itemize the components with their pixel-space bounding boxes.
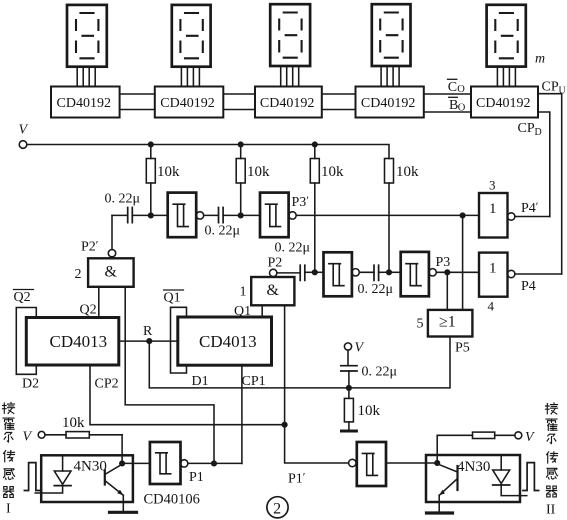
svg-text:Q1: Q1 xyxy=(164,291,181,306)
label P1 xyxy=(189,470,204,485)
svg-text:&: & xyxy=(267,282,280,299)
svg-text:10k: 10k xyxy=(358,403,381,419)
wire C1 to P2' bubble xyxy=(111,215,113,249)
chinese label column II: huo xyxy=(546,419,557,430)
svg-text:10k: 10k xyxy=(396,164,419,180)
svg-text:1: 1 xyxy=(489,261,497,277)
svg-text:2: 2 xyxy=(75,267,82,282)
label 0.22u C1 xyxy=(105,192,141,207)
wire P3' branch to OR input xyxy=(462,215,464,310)
label roman I xyxy=(6,502,11,517)
svg-text:m: m xyxy=(535,52,545,67)
wire bus U2-U3 xyxy=(223,94,255,110)
label Co with overbar xyxy=(448,79,466,95)
node R xyxy=(147,339,152,344)
node OC1 collector xyxy=(120,461,125,466)
wire P2 to C3 xyxy=(277,272,300,274)
chinese label column I: chuan xyxy=(4,451,15,462)
svg-text:CP1: CP1 xyxy=(242,374,266,389)
wire DS2 pins to U2 xyxy=(181,67,199,87)
counter U2 CD40192 xyxy=(155,87,224,118)
capacitor C5 0.22u xyxy=(341,350,397,388)
svg-text:CD40192: CD40192 xyxy=(361,96,415,111)
buffer gate 3 xyxy=(479,193,515,238)
wire CPU from U5 to P4 xyxy=(538,94,562,274)
svg-text:CP: CP xyxy=(542,80,559,95)
schmitt inverter N1 xyxy=(168,193,204,238)
svg-text:P3: P3 xyxy=(436,255,451,270)
wire OR output P5 to RC node xyxy=(349,337,450,388)
svg-text:CD4013: CD4013 xyxy=(50,332,108,351)
svg-text:R: R xyxy=(143,324,153,339)
optocoupler OC2 4N30 xyxy=(426,455,520,502)
terminal V mid xyxy=(344,341,364,356)
svg-text:0. 22μ: 0. 22μ xyxy=(362,365,398,380)
node R3-C3 xyxy=(313,270,318,275)
wire N3 out to C4 xyxy=(359,271,374,273)
chinese label column I: qi xyxy=(3,487,13,498)
label P2' xyxy=(81,238,99,255)
resistor R5 10k xyxy=(344,388,380,430)
wire C3 node to N3 xyxy=(315,271,324,273)
svg-text:D2: D2 xyxy=(22,377,39,392)
svg-text:CP2: CP2 xyxy=(95,377,119,392)
wire bus U1-U2 xyxy=(120,94,155,110)
wire OC1 emitter to ground xyxy=(122,495,124,511)
label 2 xyxy=(75,267,82,282)
chinese label column II: gan xyxy=(547,468,558,479)
ground for R5 xyxy=(342,430,357,433)
resistor R1 10k xyxy=(146,145,180,216)
counter U3 CD40192 xyxy=(255,87,322,118)
svg-text:5: 5 xyxy=(417,317,424,332)
chinese label column II: er xyxy=(547,434,556,443)
label Q2 bar xyxy=(14,290,34,306)
wire DS4 pins to U4 xyxy=(381,66,399,86)
wire N1 out to C2 xyxy=(204,214,219,216)
node CP2-P1' xyxy=(282,422,287,427)
counter U4 CD40192 xyxy=(356,87,424,118)
wire NAND1 right input from P1' xyxy=(285,305,349,463)
label Q1 bar xyxy=(164,290,184,306)
schmitt inverter N5 CD40106 xyxy=(150,442,188,484)
svg-text:II: II xyxy=(546,503,556,518)
wire DS3 pins to U3 xyxy=(281,66,299,86)
wire OC2 collector to R7 xyxy=(437,435,472,463)
figure number 2 xyxy=(267,497,288,518)
label Q1 xyxy=(234,304,251,319)
wire C2 node to N2 xyxy=(241,214,260,216)
terminal V top left xyxy=(19,123,29,149)
wire OC2 emitter to ground xyxy=(438,495,440,511)
wire CP1 to P1 xyxy=(241,365,243,463)
svg-text:3: 3 xyxy=(489,178,496,193)
node R1-C1 xyxy=(149,213,154,218)
optocoupler OC1 4N30 xyxy=(41,455,133,502)
label P4 xyxy=(521,279,536,294)
capacitor C2 0.22u xyxy=(205,208,241,239)
label P4' xyxy=(521,199,539,216)
resistor R2 10k xyxy=(236,145,270,216)
resistor R6 10k xyxy=(45,432,122,438)
svg-text:1: 1 xyxy=(240,285,247,300)
wire P1 xyxy=(188,462,242,464)
svg-text:10k: 10k xyxy=(157,164,180,180)
node OC2 collector xyxy=(435,461,440,466)
7-segment display DS2 xyxy=(172,5,211,67)
label P3 xyxy=(436,255,451,270)
capacitor C3 0.22u xyxy=(300,265,315,280)
OR gate 5 xyxy=(428,310,473,337)
7-segment display DS3 xyxy=(270,4,310,66)
svg-text:P1′: P1′ xyxy=(288,470,306,487)
wire DS1 pins to U1 xyxy=(77,67,95,87)
NAND gate 2 xyxy=(88,258,134,287)
svg-text:0. 22μ: 0. 22μ xyxy=(105,192,141,207)
svg-text:CD40106: CD40106 xyxy=(144,492,200,508)
svg-text:I: I xyxy=(6,502,11,517)
label 1 xyxy=(240,285,247,300)
schmitt inverter N6 xyxy=(349,442,386,486)
chinese label column II: qi xyxy=(546,486,556,497)
phototransistor of OC2 xyxy=(437,464,457,496)
label m xyxy=(535,52,545,67)
svg-text:O: O xyxy=(457,84,465,95)
label P1' xyxy=(288,470,306,487)
flip-flop U7 CD4013 xyxy=(178,317,272,365)
LED of OC2 xyxy=(493,456,527,495)
wire CPD from U5 to P4' xyxy=(538,112,550,217)
label 0.22u C3 xyxy=(275,241,311,256)
svg-text:P5: P5 xyxy=(455,341,470,356)
svg-text:4N30: 4N30 xyxy=(74,459,107,475)
svg-text:C: C xyxy=(448,80,457,95)
wire bus U3-U4 xyxy=(322,94,356,110)
svg-text:CD40192: CD40192 xyxy=(476,96,530,111)
NAND gate 1 output bubble xyxy=(270,269,277,276)
schmitt inverter N2 xyxy=(260,193,296,238)
svg-text:P3′: P3′ xyxy=(292,193,310,210)
svg-text:V: V xyxy=(525,430,535,445)
wire gate3 out to CPD xyxy=(515,216,550,218)
svg-text:4N30: 4N30 xyxy=(457,459,490,475)
wire R6 to opto1 collector xyxy=(121,435,123,464)
svg-text:V: V xyxy=(23,430,33,445)
svg-text:4: 4 xyxy=(488,299,495,314)
wire Q1 to NAND1 xyxy=(261,305,263,317)
label P5 xyxy=(455,341,470,356)
svg-text:0. 22μ: 0. 22μ xyxy=(358,282,394,297)
svg-text:O: O xyxy=(458,103,466,114)
flip-flop U6 CD4013 xyxy=(26,318,119,366)
svg-text:V: V xyxy=(19,123,29,138)
wire NAND2 right input from P1 xyxy=(125,287,214,464)
resistor R3 10k xyxy=(310,145,344,273)
buffer gate 4 xyxy=(479,253,515,297)
label CP1 xyxy=(242,374,266,389)
svg-text:CD4013: CD4013 xyxy=(199,332,257,351)
phototransistor of OC1 xyxy=(105,464,124,495)
label 3 xyxy=(489,178,496,193)
svg-text:10k: 10k xyxy=(62,415,85,431)
wire Q2bar to D2 loop xyxy=(16,308,36,375)
7-segment display DS4 xyxy=(372,4,411,66)
wire P3 branch to OR input xyxy=(446,272,448,310)
label R xyxy=(143,324,153,339)
capacitor C4 0.22u xyxy=(358,265,394,297)
chinese label column I: jie xyxy=(3,403,15,414)
label roman II xyxy=(546,503,556,518)
counter U5 CD40192 xyxy=(471,87,538,118)
node R2-C2 xyxy=(238,213,243,218)
ground OC2 xyxy=(427,511,453,514)
wire V rail xyxy=(27,145,389,159)
label 5 xyxy=(417,317,424,332)
svg-text:&: & xyxy=(105,264,118,281)
label CPU xyxy=(542,80,567,97)
node P5-RC xyxy=(347,386,352,391)
svg-text:CD40192: CD40192 xyxy=(260,96,314,111)
NAND gate 2 output bubble xyxy=(108,250,115,257)
node V-R2 xyxy=(238,142,243,147)
label D2 xyxy=(22,377,39,392)
resistor R7 xyxy=(473,432,515,438)
svg-text:P2: P2 xyxy=(268,256,283,271)
7-segment display DS5 xyxy=(487,5,526,67)
svg-text:0. 22μ: 0. 22μ xyxy=(275,241,311,256)
wire bus U4-U5 carry/borrow xyxy=(424,94,471,112)
NAND gate 1 xyxy=(251,277,294,305)
svg-text:10k: 10k xyxy=(321,164,344,180)
svg-text:P4: P4 xyxy=(521,279,536,294)
label 10k R6 xyxy=(62,415,85,431)
schmitt inverter N4 xyxy=(401,252,437,296)
chinese label column II: jie xyxy=(546,403,558,414)
wire CP2 to P1' xyxy=(90,365,285,425)
pulse symbol input II xyxy=(523,463,539,491)
node P1 xyxy=(212,461,217,466)
label CPD xyxy=(518,121,542,138)
wire R reset from P5 node xyxy=(149,341,349,388)
label 4 xyxy=(488,299,495,314)
node R4-C4 xyxy=(387,270,392,275)
label Bo with overbar xyxy=(449,97,466,113)
svg-text:1: 1 xyxy=(489,201,497,217)
svg-text:V: V xyxy=(355,341,365,356)
chinese label column I: gan xyxy=(4,469,15,480)
svg-text:U: U xyxy=(559,86,567,97)
label D1 xyxy=(192,374,209,389)
svg-text:P2′: P2′ xyxy=(81,238,99,255)
svg-text:CD40192: CD40192 xyxy=(160,96,214,111)
svg-text:≥1: ≥1 xyxy=(439,314,456,331)
label CP2 xyxy=(95,377,119,392)
terminal V opto1 xyxy=(23,430,45,445)
wire gate4 out to CPU xyxy=(515,273,562,275)
node V-R1 xyxy=(149,142,154,147)
wire P3 to gate 4 xyxy=(436,271,479,273)
svg-text:CP: CP xyxy=(518,121,535,136)
svg-text:10k: 10k xyxy=(247,164,270,180)
ground OC1 xyxy=(110,511,137,514)
svg-text:Q2: Q2 xyxy=(14,290,31,305)
svg-text:P4′: P4′ xyxy=(521,199,539,216)
wire DS5 pins to U5 xyxy=(497,67,515,87)
LED of OC1 xyxy=(35,457,71,494)
wire C1 node to N1 xyxy=(151,214,168,216)
wire P3' to gate 3 xyxy=(296,214,479,216)
capacitor C1 0.22u xyxy=(112,208,151,223)
svg-text:P1: P1 xyxy=(189,470,204,485)
counter U1 CD40192 xyxy=(51,87,120,118)
wire Q1bar to D1 loop xyxy=(171,307,187,373)
chinese label column I: er xyxy=(4,433,13,442)
wire R between flip-flops xyxy=(120,340,178,342)
label P3' xyxy=(292,193,310,210)
pulse symbol input I xyxy=(24,463,40,491)
label P2 xyxy=(268,256,283,271)
schmitt inverter N3 xyxy=(324,252,360,296)
label CD40106 xyxy=(144,492,200,508)
svg-text:Q2: Q2 xyxy=(80,303,97,318)
wire Q2 to NAND2 xyxy=(98,287,100,318)
wire N6 to OC2 collector xyxy=(386,462,437,464)
7-segment display DS1 xyxy=(67,5,107,67)
svg-text:CD40192: CD40192 xyxy=(57,96,111,111)
node P3 branch xyxy=(445,270,450,275)
svg-text:2: 2 xyxy=(273,501,281,518)
chinese label column II: chuan xyxy=(547,452,558,463)
svg-text:D1: D1 xyxy=(192,374,209,389)
node V-R3 xyxy=(313,142,318,147)
svg-text:D: D xyxy=(535,127,542,138)
svg-text:0. 22μ: 0. 22μ xyxy=(205,224,241,239)
chinese label column I: huo xyxy=(3,418,14,429)
label Q2 xyxy=(80,303,97,318)
wire C4 node to N4 xyxy=(389,271,401,273)
wire OC1 collector to N5 xyxy=(122,462,150,464)
node P3' branch xyxy=(460,213,465,218)
resistor R4 10k xyxy=(385,159,420,273)
terminal V opto2 xyxy=(515,430,535,445)
